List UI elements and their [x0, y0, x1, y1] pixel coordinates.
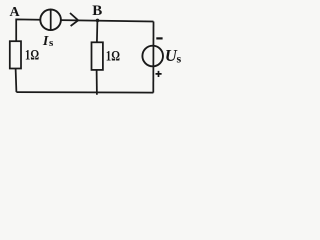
wire: node A top-left corner to current source [16, 19, 40, 41]
svg-text:1Ω: 1Ω [106, 49, 120, 65]
middle branch wire lower [96, 70, 98, 95]
svg-text:s: s [49, 37, 54, 49]
current source Is (circle) [40, 9, 61, 30]
svg-text:1Ω: 1Ω [25, 47, 39, 63]
middle resistor R2 [92, 42, 103, 70]
svg-text:I: I [42, 34, 49, 49]
current source Is internal bar [50, 10, 52, 31]
node B junction dot [96, 19, 100, 23]
wire: current source to B to top-right corner [61, 20, 154, 21]
middle branch wire upper [96, 20, 99, 42]
svg-text:A: A [10, 5, 21, 20]
svg-text:B: B [92, 3, 102, 19]
polarity minus of Us [156, 37, 162, 39]
svg-text:s: s [177, 52, 182, 66]
current direction arrow [70, 13, 78, 26]
right branch wire through source [152, 22, 154, 93]
wire left branch lower [15, 69, 18, 93]
bottom wire [16, 91, 153, 94]
voltage source Us (circle) [142, 46, 163, 67]
polarity plus of Us [156, 71, 162, 77]
left branch resistor R1 [10, 41, 21, 68]
